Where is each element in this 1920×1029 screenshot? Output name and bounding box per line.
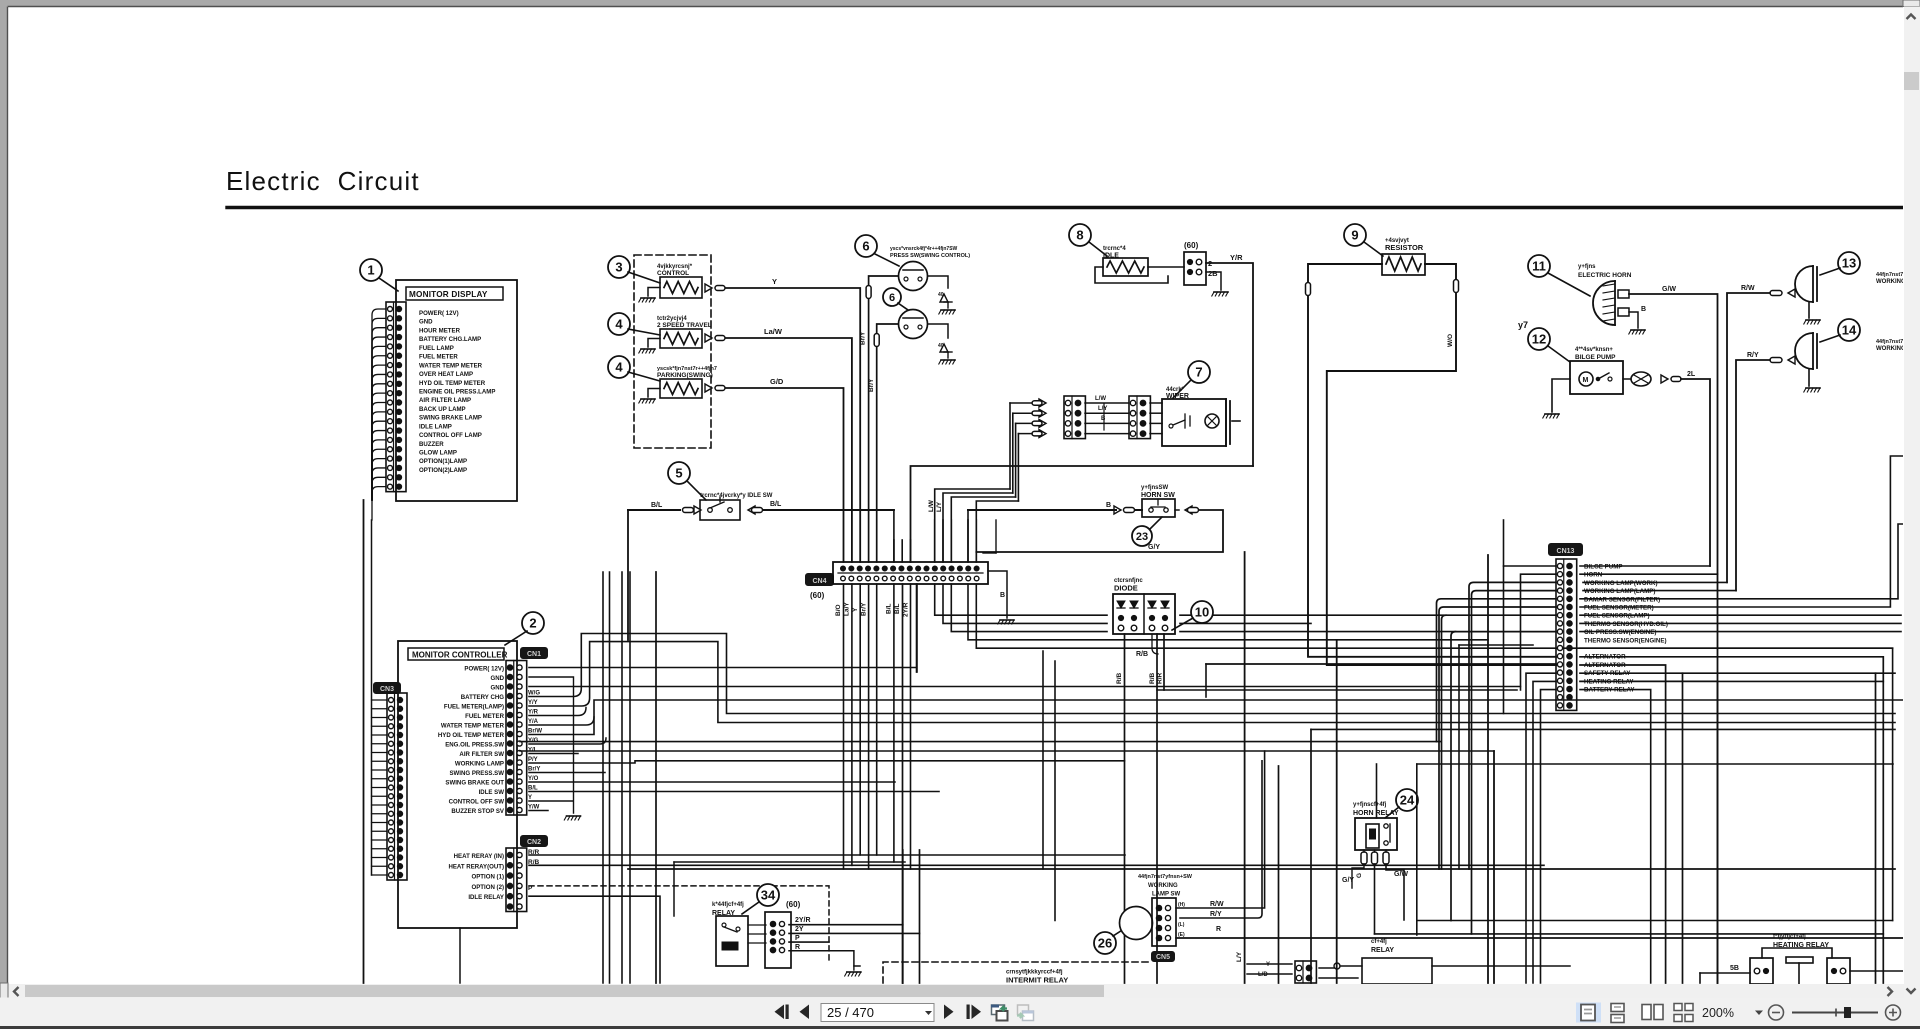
svg-text:CN4: CN4 bbox=[812, 578, 826, 585]
svg-text:ELECTRIC HORN: ELECTRIC HORN bbox=[1578, 272, 1632, 279]
svg-text:5B: 5B bbox=[1730, 965, 1739, 972]
svg-text:La/Y: La/Y bbox=[844, 602, 851, 616]
svg-text:Y/Y: Y/Y bbox=[528, 700, 538, 706]
svg-text:Y/O: Y/O bbox=[528, 776, 539, 782]
svg-text:(60): (60) bbox=[810, 591, 825, 600]
svg-text:GLOW LAMP: GLOW LAMP bbox=[419, 450, 457, 457]
svg-text:25 / 470: 25 / 470 bbox=[827, 1005, 874, 1020]
svg-text:R/W: R/W bbox=[1210, 901, 1224, 908]
svg-text:Br/Y: Br/Y bbox=[868, 378, 875, 392]
svg-text:L/W: L/W bbox=[1095, 396, 1106, 402]
svg-text:MONITOR DISPLAY: MONITOR DISPLAY bbox=[409, 290, 488, 299]
svg-text:Y/R: Y/R bbox=[1230, 253, 1243, 262]
svg-text:CN2: CN2 bbox=[527, 839, 541, 846]
svg-text:24: 24 bbox=[1400, 793, 1415, 808]
svg-text:SWING BRAKE LAMP: SWING BRAKE LAMP bbox=[419, 415, 482, 422]
svg-text:BUZZER STOP SV: BUZZER STOP SV bbox=[451, 808, 505, 815]
svg-text:B/L: B/L bbox=[894, 604, 901, 615]
svg-text:R/W: R/W bbox=[1741, 285, 1755, 292]
svg-text:CN1: CN1 bbox=[527, 651, 541, 658]
svg-text:R/Y: R/Y bbox=[1210, 911, 1222, 918]
svg-text:(H): (H) bbox=[1178, 902, 1185, 908]
svg-text:WATER TEMP METER: WATER TEMP METER bbox=[419, 362, 483, 369]
svg-text:Y/A: Y/A bbox=[528, 719, 539, 725]
svg-text:BATTERY CHG: BATTERY CHG bbox=[461, 694, 504, 701]
svg-text:HORN: HORN bbox=[1584, 572, 1603, 579]
svg-text:W/O: W/O bbox=[1447, 334, 1454, 347]
svg-text:yscs*vnsrck4fj*4r++4fjn7SW: yscs*vnsrck4fj*4r++4fjn7SW bbox=[890, 246, 958, 252]
svg-text:trcrnc*4jvcrky*y IDLE SW: trcrnc*4jvcrky*y IDLE SW bbox=[700, 493, 773, 499]
svg-text:HOUR METER: HOUR METER bbox=[419, 327, 461, 334]
svg-text:Br/Y: Br/Y bbox=[860, 331, 867, 345]
svg-text:L/Y: L/Y bbox=[1236, 951, 1243, 962]
svg-text:Y/R: Y/R bbox=[528, 710, 539, 716]
svg-text:P/Y: P/Y bbox=[528, 757, 538, 763]
svg-text:L/Y: L/Y bbox=[936, 501, 943, 512]
svg-text:4: 4 bbox=[615, 360, 623, 375]
svg-text:BILGE PUMP: BILGE PUMP bbox=[1575, 354, 1616, 361]
svg-text:OPTION (1): OPTION (1) bbox=[471, 874, 504, 881]
svg-text:Y: Y bbox=[1266, 962, 1270, 968]
svg-text:BILGE PUMP: BILGE PUMP bbox=[1584, 564, 1623, 571]
svg-text:FUEL SENSOR(METER): FUEL SENSOR(METER) bbox=[1584, 605, 1654, 612]
svg-text:R/R: R/R bbox=[1157, 673, 1164, 685]
svg-text:B/L: B/L bbox=[528, 786, 538, 792]
svg-text:DAMAR SENSOR(FILTER): DAMAR SENSOR(FILTER) bbox=[1584, 596, 1660, 603]
svg-text:R/B: R/B bbox=[1136, 651, 1148, 658]
svg-text:(60): (60) bbox=[1184, 241, 1199, 250]
svg-text:OPTION (2): OPTION (2) bbox=[471, 884, 504, 891]
svg-text:G: G bbox=[1356, 873, 1363, 878]
svg-text:HEAT RERAY(OUT): HEAT RERAY(OUT) bbox=[448, 863, 504, 870]
svg-text:y+fjnscf+4fj: y+fjnscf+4fj bbox=[1353, 802, 1387, 808]
svg-text:LAMP SW: LAMP SW bbox=[1152, 892, 1181, 898]
svg-text:Br/Y: Br/Y bbox=[861, 602, 868, 616]
svg-text:ENGINE OIL PRESS.LAMP: ENGINE OIL PRESS.LAMP bbox=[419, 388, 495, 395]
svg-text:2 SPEED TRAVEL: 2 SPEED TRAVEL bbox=[657, 322, 712, 329]
svg-text:CONTROL OFF LAMP: CONTROL OFF LAMP bbox=[419, 432, 482, 439]
svg-text:y+fjns: y+fjns bbox=[1578, 264, 1596, 270]
svg-text:DIODE: DIODE bbox=[1114, 584, 1138, 593]
svg-text:y7: y7 bbox=[1518, 320, 1528, 330]
svg-text:(L): (L) bbox=[1178, 922, 1185, 928]
svg-text:HYD OIL TEMP METER: HYD OIL TEMP METER bbox=[438, 732, 505, 739]
svg-text:OPTION(2)LAMP: OPTION(2)LAMP bbox=[419, 467, 467, 474]
svg-text:INTERMIT RELAY: INTERMIT RELAY bbox=[1006, 976, 1068, 985]
svg-text:IDLE LAMP: IDLE LAMP bbox=[419, 423, 452, 430]
svg-text:R/B: R/B bbox=[1116, 673, 1123, 685]
svg-text:2Y/R: 2Y/R bbox=[795, 917, 811, 924]
svg-text:11: 11 bbox=[1532, 259, 1546, 274]
svg-text:ENG.OIL PRESS.SW: ENG.OIL PRESS.SW bbox=[445, 742, 504, 749]
svg-text:HYD OIL TEMP METER: HYD OIL TEMP METER bbox=[419, 380, 486, 387]
svg-text:B: B bbox=[1000, 592, 1005, 599]
svg-text:Y/W: Y/W bbox=[528, 805, 540, 811]
svg-text:WORKING LAMP(LAMP): WORKING LAMP(LAMP) bbox=[1584, 588, 1656, 595]
svg-text:CONTROL: CONTROL bbox=[657, 270, 689, 277]
svg-text:POWER( 12V): POWER( 12V) bbox=[464, 666, 504, 673]
svg-text:FUEL METER: FUEL METER bbox=[465, 713, 504, 720]
svg-text:FUEL METER(LAMP): FUEL METER(LAMP) bbox=[444, 704, 504, 711]
svg-text:4: 4 bbox=[615, 317, 623, 332]
svg-text:GND: GND bbox=[490, 685, 504, 692]
svg-text:L/W: L/W bbox=[928, 499, 935, 512]
svg-text:WATER TEMP METER: WATER TEMP METER bbox=[441, 723, 505, 730]
svg-text:PRESS SW(SWING CONTROL): PRESS SW(SWING CONTROL) bbox=[890, 253, 970, 259]
svg-text:12: 12 bbox=[1532, 332, 1546, 347]
svg-text:44fjn7nst7yfnsn+SW: 44fjn7nst7yfnsn+SW bbox=[1138, 874, 1193, 880]
svg-text:B/L: B/L bbox=[770, 501, 782, 508]
svg-text:CONTROL OFF SW: CONTROL OFF SW bbox=[449, 799, 505, 806]
svg-text:B/L: B/L bbox=[651, 502, 663, 509]
svg-text:P: P bbox=[795, 935, 800, 942]
svg-text:2Y: 2Y bbox=[795, 926, 804, 933]
svg-text:k*44fjcf+4fj: k*44fjcf+4fj bbox=[712, 902, 744, 908]
svg-text:PARKING(SWING): PARKING(SWING) bbox=[657, 372, 713, 379]
svg-text:B/L: B/L bbox=[886, 604, 893, 615]
svg-text:HEAT RERAY (IN): HEAT RERAY (IN) bbox=[454, 853, 504, 860]
svg-text:Y: Y bbox=[772, 277, 777, 286]
svg-text:200%: 200% bbox=[1702, 1006, 1734, 1020]
svg-text:BACK UP LAMP: BACK UP LAMP bbox=[419, 406, 466, 413]
svg-text:10: 10 bbox=[1195, 605, 1209, 620]
svg-text:(60): (60) bbox=[786, 900, 801, 909]
svg-text:CN5: CN5 bbox=[1156, 954, 1170, 961]
svg-text:trcrnc*4: trcrnc*4 bbox=[1103, 246, 1126, 252]
svg-text:WORKING LAMP: WORKING LAMP bbox=[455, 761, 504, 768]
svg-text:40: 40 bbox=[938, 343, 944, 349]
svg-text:MONITOR CONTROLLER: MONITOR CONTROLLER bbox=[412, 651, 508, 660]
svg-text:26: 26 bbox=[1098, 936, 1112, 951]
svg-text:La/W: La/W bbox=[764, 327, 783, 336]
svg-text:M: M bbox=[1583, 377, 1589, 384]
svg-text:THERMO SENSOR(ENGINE): THERMO SENSOR(ENGINE) bbox=[1584, 637, 1667, 644]
svg-text:OPTION(1)LAMP: OPTION(1)LAMP bbox=[419, 458, 467, 465]
svg-text:RESISTOR: RESISTOR bbox=[1385, 243, 1424, 252]
svg-text:BATTERY CHG.LAMP: BATTERY CHG.LAMP bbox=[419, 336, 481, 343]
svg-text:9: 9 bbox=[1351, 228, 1358, 243]
svg-text:CN13: CN13 bbox=[1557, 548, 1575, 555]
svg-text:Br/Y: Br/Y bbox=[528, 767, 540, 773]
svg-text:AIR FILTER LAMP: AIR FILTER LAMP bbox=[419, 397, 471, 404]
svg-text:(E): (E) bbox=[1178, 932, 1185, 938]
svg-text:23: 23 bbox=[1136, 531, 1148, 543]
svg-text:HORN SW: HORN SW bbox=[1141, 492, 1175, 499]
svg-text:Electric Circuit: Electric Circuit bbox=[226, 166, 420, 196]
svg-text:AIR FILTER SW: AIR FILTER SW bbox=[459, 751, 504, 758]
svg-text:1: 1 bbox=[367, 263, 374, 278]
svg-text:R: R bbox=[1216, 926, 1221, 933]
svg-text:34: 34 bbox=[761, 888, 776, 903]
svg-text:7: 7 bbox=[1195, 365, 1202, 380]
svg-text:13: 13 bbox=[1842, 256, 1856, 271]
svg-text:GND: GND bbox=[490, 675, 504, 682]
svg-text:R/B: R/B bbox=[1149, 673, 1156, 685]
svg-text:SWING BRAKE OUT: SWING BRAKE OUT bbox=[445, 780, 504, 787]
svg-text:6: 6 bbox=[862, 239, 869, 254]
svg-text:R: R bbox=[795, 944, 800, 951]
svg-text:2L: 2L bbox=[1687, 371, 1696, 378]
svg-text:2: 2 bbox=[529, 616, 536, 631]
svg-text:3: 3 bbox=[615, 260, 622, 275]
svg-text:FUEL LAMP: FUEL LAMP bbox=[419, 345, 454, 352]
svg-text:POWER( 12V): POWER( 12V) bbox=[419, 310, 459, 317]
svg-text:Y: Y bbox=[852, 607, 859, 612]
svg-text:L/Y: L/Y bbox=[1098, 406, 1107, 412]
svg-text:WORKING: WORKING bbox=[1148, 883, 1178, 889]
svg-text:f*fjytfjcf+4fj: f*fjytfjcf+4fj bbox=[1773, 934, 1806, 940]
svg-text:Br/W: Br/W bbox=[528, 729, 542, 735]
svg-text:B/O: B/O bbox=[835, 604, 842, 616]
svg-text:G/Y: G/Y bbox=[1148, 544, 1160, 551]
svg-text:8: 8 bbox=[1076, 228, 1083, 243]
svg-text:CN3: CN3 bbox=[380, 686, 394, 693]
svg-text:6: 6 bbox=[889, 292, 895, 304]
svg-text:5: 5 bbox=[675, 466, 682, 481]
svg-text:G/D: G/D bbox=[770, 377, 784, 386]
svg-text:WORKING LAMP(WORK): WORKING LAMP(WORK) bbox=[1584, 580, 1658, 587]
svg-text:GND: GND bbox=[419, 319, 433, 326]
svg-text:OVER HEAT LAMP: OVER HEAT LAMP bbox=[419, 371, 473, 378]
svg-text:IDLE RELAY: IDLE RELAY bbox=[468, 894, 504, 901]
svg-text:B: B bbox=[1641, 306, 1646, 313]
svg-text:L/D: L/D bbox=[1258, 972, 1268, 978]
svg-text:RELAY: RELAY bbox=[1371, 947, 1394, 954]
svg-text:Y: Y bbox=[528, 795, 532, 801]
svg-text:14: 14 bbox=[1842, 323, 1857, 338]
svg-text:2B: 2B bbox=[1208, 269, 1218, 278]
svg-text:G/W: G/W bbox=[1662, 286, 1676, 293]
svg-text:G/W: G/W bbox=[1394, 871, 1408, 878]
svg-text:THERMO SENSOR(HYD.OIL): THERMO SENSOR(HYD.OIL) bbox=[1584, 621, 1668, 628]
svg-text:y+fjnsSW: y+fjnsSW bbox=[1141, 485, 1169, 491]
svg-text:cf+4fj: cf+4fj bbox=[1371, 939, 1387, 945]
svg-text:BUZZER: BUZZER bbox=[419, 441, 444, 448]
svg-text:FUEL METER: FUEL METER bbox=[419, 354, 458, 361]
svg-text:B: B bbox=[1106, 502, 1111, 509]
svg-text:4**4sv*knsn+: 4**4sv*knsn+ bbox=[1575, 347, 1613, 353]
svg-text:2Y/R: 2Y/R bbox=[903, 602, 910, 617]
svg-text:IDLE SW: IDLE SW bbox=[479, 789, 505, 796]
svg-text:OIL PRESS.SW(ENGINE): OIL PRESS.SW(ENGINE) bbox=[1584, 629, 1656, 636]
svg-text:SWING PRESS.SW: SWING PRESS.SW bbox=[449, 770, 504, 777]
svg-text:FUEL SENSOR(LAMP): FUEL SENSOR(LAMP) bbox=[1584, 613, 1650, 620]
svg-text:40: 40 bbox=[938, 292, 944, 298]
svg-text:R/Y: R/Y bbox=[1747, 352, 1759, 359]
svg-text:W/G: W/G bbox=[528, 691, 540, 697]
